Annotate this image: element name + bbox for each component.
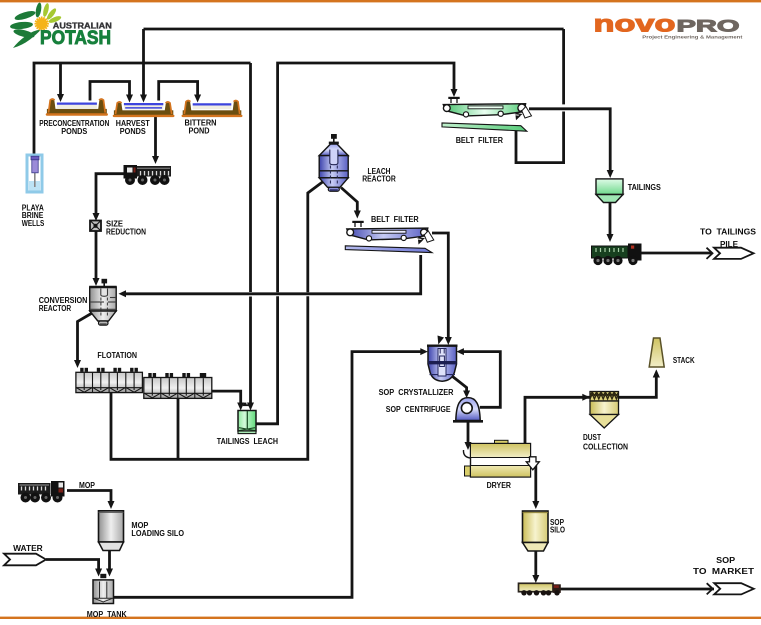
svg-text:REACTOR: REACTOR	[362, 175, 396, 184]
svg-text:TO MARKET: TO MARKET	[693, 567, 754, 576]
svg-text:Project Engineering & Manageme: Project Engineering & Management	[642, 35, 742, 41]
svg-text:MOP TANK: MOP TANK	[87, 610, 127, 619]
svg-text:FLOTATION: FLOTATION	[97, 351, 137, 360]
svg-text:PONDS: PONDS	[120, 127, 147, 136]
svg-text:TAILINGS LEACH: TAILINGS LEACH	[217, 437, 278, 446]
svg-text:novo: novo	[594, 11, 676, 37]
svg-text:COLLECTION: COLLECTION	[583, 442, 628, 451]
svg-text:PILE: PILE	[720, 240, 739, 249]
svg-text:DRYER: DRYER	[487, 481, 512, 490]
svg-text:WATER: WATER	[13, 544, 43, 553]
svg-text:SILO: SILO	[550, 526, 565, 535]
svg-text:POND: POND	[189, 127, 210, 136]
svg-text:BELT FILTER: BELT FILTER	[456, 136, 504, 145]
svg-text:PRO: PRO	[677, 17, 740, 36]
svg-text:SOP CENTRIFUGE: SOP CENTRIFUGE	[386, 405, 451, 414]
svg-text:BELT FILTER: BELT FILTER	[371, 215, 419, 224]
svg-text:SOP CRYSTALLIZER: SOP CRYSTALLIZER	[379, 388, 454, 397]
svg-text:REDUCTION: REDUCTION	[106, 228, 146, 237]
svg-text:TAILINGS: TAILINGS	[628, 183, 662, 192]
svg-text:STACK: STACK	[673, 356, 695, 365]
svg-text:WELLS: WELLS	[22, 219, 45, 228]
svg-text:LOADING SILO: LOADING SILO	[131, 529, 184, 538]
svg-text:PONDS: PONDS	[61, 127, 88, 136]
svg-text:MOP: MOP	[79, 481, 96, 490]
svg-text:REACTOR: REACTOR	[39, 304, 72, 313]
svg-text:TO TAILINGS: TO TAILINGS	[700, 228, 757, 237]
svg-text:POTASH: POTASH	[40, 28, 111, 49]
svg-text:DUST: DUST	[583, 433, 601, 442]
svg-text:SOP: SOP	[716, 556, 736, 565]
